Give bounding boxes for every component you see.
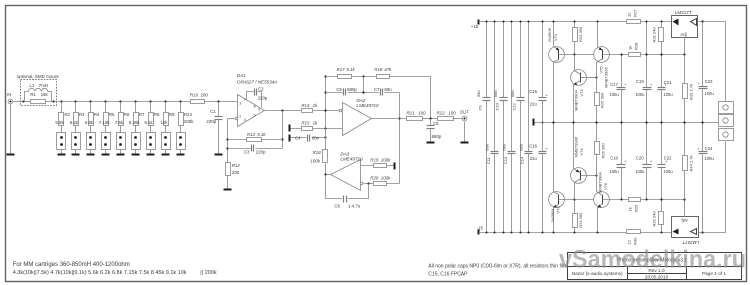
svg-text:100u: 100u — [663, 169, 673, 174]
svg-text:R3: R3 — [79, 112, 85, 117]
resistor R5 7.15k with jumper and ground — [99, 100, 115, 155]
svg-text:7.15k: 7.15k — [99, 120, 111, 125]
svg-text:R16: R16 — [313, 150, 322, 155]
svg-text:C2: C2 — [258, 86, 264, 91]
svg-text:R4: R4 — [94, 112, 100, 117]
svg-text:R32 240: R32 240 — [652, 211, 657, 227]
pin bar C4 input — [289, 135, 291, 142]
node V71 base R23 — [573, 53, 575, 55]
transistor V73 MMBT3904 — [571, 55, 597, 123]
svg-text:R2: R2 — [64, 112, 70, 117]
svg-text:L1: L1 — [30, 83, 35, 88]
svg-text:OUT: OUT — [460, 110, 469, 115]
capacitor C10 68n — [493, 90, 507, 110]
svg-text:C20: C20 — [636, 155, 644, 160]
transistor V74 MMBT3906 — [571, 123, 597, 200]
node R17 R18 — [362, 75, 364, 77]
capacitor C15 22u — [529, 89, 548, 106]
svg-text:12: 12 — [626, 12, 631, 17]
svg-text:100u: 100u — [704, 91, 714, 96]
svg-text:C11: C11 — [486, 156, 491, 164]
wire rail C10 — [503, 21, 505, 234]
capacitor C6 1-4.7u — [334, 196, 361, 209]
svg-text:All non polar caps NP0 (C0G-fi: All non polar caps NP0 (C0G-film or X7R)… — [428, 263, 568, 269]
capacitor C22 100u — [658, 123, 674, 201]
capacitor C16 22u — [529, 144, 548, 161]
resistor R20 100k — [370, 176, 391, 186]
svg-text:C24: C24 — [705, 146, 713, 151]
svg-text:6.8k: 6.8k — [85, 120, 94, 125]
wire base rail to V75 — [575, 54, 594, 56]
voltage regulator LM317T — [672, 10, 698, 38]
capacitor C24 100u — [697, 123, 714, 233]
wire GND mid rail — [535, 122, 719, 124]
connector XS1 pin1 — [719, 102, 734, 114]
wire C3 feedback — [228, 148, 283, 150]
svg-text:C19: C19 — [636, 79, 644, 84]
svg-text:R25 390: R25 390 — [599, 92, 604, 108]
capacitor C1 220p — [206, 102, 222, 154]
resistor R28 1k — [627, 42, 640, 57]
svg-text:5: 5 — [254, 113, 256, 117]
svg-text:R23 390: R23 390 — [578, 26, 583, 42]
ground C1 — [215, 154, 223, 156]
svg-text:100k: 100k — [381, 158, 391, 163]
wire rail C11 — [494, 21, 496, 234]
capacitor C11 68n — [485, 144, 499, 164]
node gnd dots — [552, 121, 685, 123]
svg-text:100: 100 — [448, 111, 456, 116]
svg-text:LM337T: LM337T — [682, 240, 699, 245]
svg-text:7mH: 7mH — [39, 83, 48, 88]
svg-text:-15: -15 — [477, 226, 484, 231]
wire rail C14 — [528, 21, 530, 234]
svg-text:200: 200 — [201, 93, 209, 98]
node C24 bottom — [701, 231, 703, 233]
capacitor C23 100u — [697, 22, 714, 123]
node Adj337 rail — [683, 198, 685, 200]
svg-text:C13: C13 — [503, 156, 508, 164]
svg-text:680p: 680p — [432, 134, 442, 139]
resistor R1 19k — [30, 92, 48, 103]
svg-text:8: 8 — [254, 105, 256, 109]
node C23 top — [701, 20, 703, 22]
wire output line R21 R22 — [423, 118, 438, 120]
svg-text:7.5k: 7.5k — [115, 120, 124, 125]
svg-text:68n: 68n — [502, 144, 507, 151]
wire Adj down — [684, 38, 686, 55]
node DA1 output — [281, 109, 283, 111]
node bus-L1 left — [22, 100, 24, 102]
svg-text:R19: R19 — [370, 158, 379, 163]
wire C5 C7 line — [326, 92, 400, 94]
wire C4 line — [291, 137, 326, 139]
ground C8 — [427, 142, 435, 144]
ground R12 — [224, 189, 232, 191]
svg-text:7: 7 — [244, 98, 246, 102]
svg-text:R6: R6 — [124, 112, 130, 117]
svg-text:R30: R30 — [632, 237, 637, 245]
capacitor C17 100u — [609, 54, 627, 123]
svg-text:R10: R10 — [190, 93, 199, 98]
capacitor C5 680p — [336, 87, 357, 96]
node base rail dots top — [621, 54, 648, 56]
connector XS1 pin2 — [719, 115, 734, 127]
svg-text:vSamodelkina.ru: vSamodelkina.ru — [559, 246, 746, 274]
svg-text:6: 6 — [258, 107, 260, 111]
transistor V71 2N3906 — [547, 21, 574, 123]
capacitor C20 100u — [635, 123, 653, 201]
svg-text:100: 100 — [418, 111, 426, 116]
transistor V75 MMBT3906 — [594, 21, 685, 93]
svg-text:47k: 47k — [384, 67, 392, 72]
op-amp DA2 LME49710 — [339, 98, 379, 136]
svg-text:100k: 100k — [381, 176, 391, 181]
svg-text:C18: C18 — [610, 155, 618, 160]
node col R14 line — [324, 109, 326, 111]
svg-text:1k: 1k — [627, 207, 632, 211]
capacitor C12 68n — [510, 90, 524, 110]
svg-text:C10: C10 — [495, 102, 500, 110]
capacitor C19 100u — [635, 21, 653, 123]
svg-text:LM317T: LM317T — [675, 10, 692, 15]
svg-text:C17: C17 — [610, 82, 618, 87]
svg-text:LME49710: LME49710 — [356, 103, 379, 108]
svg-text:R14: R14 — [301, 103, 310, 108]
node output C8 — [429, 117, 431, 119]
wire R13 feedback — [228, 139, 283, 141]
svg-text:MMBT3906: MMBT3906 — [604, 67, 609, 88]
svg-text:220p: 220p — [206, 119, 216, 124]
wire base rail to V76 — [575, 199, 594, 201]
resistor R32 240 — [652, 200, 664, 234]
svg-text:220p: 220p — [258, 95, 268, 100]
svg-text:1-4.7u: 1-4.7u — [348, 204, 361, 209]
svg-text:LME49710: LME49710 — [340, 156, 363, 161]
svg-text:100u: 100u — [635, 92, 645, 97]
svg-text:R20: R20 — [370, 176, 379, 181]
capacitor C8 680p — [427, 119, 442, 142]
svg-text:200k: 200k — [184, 119, 194, 124]
node riser output — [398, 117, 400, 119]
transistor V76 MMBT3904 — [594, 172, 685, 234]
svg-text:200: 200 — [231, 170, 240, 175]
svg-text:28.05.2010: 28.05.2010 — [645, 274, 669, 279]
svg-text:6.2k: 6.2k — [70, 120, 79, 125]
svg-text:C8: C8 — [433, 121, 439, 126]
wire R20 line — [364, 183, 400, 185]
svg-text:C14: C14 — [520, 156, 525, 164]
title block frame — [568, 253, 743, 280]
svg-text:5.1k: 5.1k — [257, 132, 266, 137]
svg-text:For MM cartriges 360-850mH 400: For MM cartriges 360-850mH 400-1200ohm — [13, 262, 130, 268]
svg-text:5.1k: 5.1k — [346, 67, 355, 72]
op-amp DA3 LME49710 — [331, 151, 364, 190]
node gnd C23C24 — [701, 121, 703, 123]
svg-text:OPA627 / NE5534A: OPA627 / NE5534A — [237, 79, 278, 84]
resistor R17 5.1k — [337, 67, 356, 79]
svg-text:1k: 1k — [313, 103, 318, 108]
svg-text:8.45k: 8.45k — [129, 120, 141, 125]
capacitor C4 68n — [295, 135, 320, 142]
node R20 left — [367, 182, 369, 184]
svg-text:C3: C3 — [244, 149, 250, 154]
svg-text:MMBT3906: MMBT3906 — [573, 136, 578, 157]
resistor R27 12 — [626, 9, 640, 24]
svg-text:C4: C4 — [295, 135, 301, 140]
svg-text:R15: R15 — [301, 121, 310, 126]
connector IN J1 — [7, 92, 13, 104]
svg-text:R18: R18 — [374, 67, 383, 72]
svg-text:R27: R27 — [632, 9, 637, 17]
resistor R24 390 — [573, 200, 583, 234]
svg-text:22u: 22u — [530, 156, 538, 161]
wire mid column — [325, 77, 327, 150]
svg-text:68n: 68n — [312, 135, 320, 140]
pin bar R19 right — [394, 163, 396, 170]
optional SMD box — [17, 74, 60, 105]
svg-text:R8: R8 — [154, 112, 160, 117]
svg-text:R17: R17 — [337, 67, 346, 72]
svg-text:DA1: DA1 — [237, 73, 246, 78]
resistor R22 100 — [437, 111, 457, 121]
resistor R23 200k with jumper and ground — [177, 100, 195, 155]
wire DA1 inverting input — [228, 118, 235, 120]
svg-text:optional, SMD mount: optional, SMD mount — [17, 74, 60, 79]
node fb right — [281, 138, 283, 140]
svg-text:100u: 100u — [635, 169, 645, 174]
svg-text:C16: C16 — [529, 144, 537, 149]
wire R16 to DA3 — [325, 164, 327, 175]
svg-text:220p: 220p — [256, 149, 266, 154]
resistor R30 12 — [626, 230, 640, 246]
wire R17 R18 top line — [326, 76, 431, 78]
capacitor C18 100u — [609, 123, 627, 201]
svg-text:68n: 68n — [493, 90, 498, 97]
svg-text:R22: R22 — [437, 111, 446, 116]
svg-text:C15: C15 — [529, 89, 537, 94]
resistor R14 1k — [301, 103, 318, 113]
node V73 base R25 col — [595, 76, 597, 78]
svg-text:680p: 680p — [347, 87, 357, 92]
wire rail C15 C16 — [542, 21, 544, 234]
wire C6 loop — [326, 175, 369, 199]
ground IN — [7, 154, 15, 156]
svg-text:68n: 68n — [476, 90, 481, 97]
svg-text:V74: V74 — [579, 148, 584, 156]
svg-text:2N3906: 2N3906 — [547, 27, 552, 42]
ground OUT — [461, 142, 469, 144]
svg-text:V73: V73 — [579, 89, 584, 97]
node bus C1 — [217, 100, 219, 102]
wire R18 riser to output — [430, 77, 432, 119]
svg-text:Adj: Adj — [680, 32, 686, 37]
svg-text:4.3k(10k||7.5k) 4.7k(10k||9.1k: 4.3k(10k||7.5k) 4.7k(10k||9.1k) 5.6k 6.2… — [13, 270, 217, 276]
capacitor C13 68n — [502, 144, 516, 164]
wire R15 line — [291, 128, 343, 130]
wire rail C13 — [511, 21, 513, 234]
svg-text:R31 240: R31 240 — [652, 27, 657, 43]
wire Adj 337 up — [684, 200, 686, 217]
wire OUT down — [464, 122, 466, 142]
svg-text:68n: 68n — [510, 90, 515, 97]
resistor R12 200 — [226, 163, 241, 176]
svg-text:1k: 1k — [627, 46, 632, 50]
transistor V72 2N3904 — [549, 123, 575, 234]
svg-text:V76: V76 — [603, 182, 608, 190]
wire R17R18 node down — [363, 77, 365, 93]
svg-text:C6: C6 — [334, 204, 340, 209]
connector XS1 pin3 — [719, 129, 734, 141]
svg-text:68n: 68n — [485, 144, 490, 151]
capacitor C3 220p — [244, 145, 266, 155]
svg-text:R12: R12 — [232, 163, 241, 168]
wire C7 riser to output — [399, 93, 401, 184]
wire rail C12 — [520, 21, 522, 234]
node V74 base R26 col — [595, 174, 597, 176]
resistor R31 240 — [652, 21, 664, 55]
svg-text:2: 2 — [239, 115, 241, 119]
node bus-L1 right — [52, 100, 54, 102]
svg-text:Adj: Adj — [682, 218, 688, 223]
node base rail dots bottom — [621, 199, 648, 201]
svg-text:C5: C5 — [336, 87, 342, 92]
svg-text:12: 12 — [626, 239, 631, 244]
svg-text:C1: C1 — [210, 109, 216, 114]
resistor R8 9.1k with jumper and ground — [144, 100, 160, 155]
resistor R33 2.7k — [683, 55, 694, 123]
wire R12 to ground — [227, 176, 229, 189]
svg-text:R33 2.7k: R33 2.7k — [688, 84, 693, 100]
capacitor C9 68n — [476, 90, 490, 110]
node DA3 out column — [324, 173, 326, 175]
svg-text:1k: 1k — [313, 121, 318, 126]
resistor R16 100k — [310, 150, 327, 164]
svg-text:4: 4 — [244, 118, 246, 122]
svg-text:C15, C16 FPCAP: C15, C16 FPCAP — [428, 272, 468, 278]
svg-text:100u: 100u — [663, 92, 673, 97]
wire R22 to OUT — [453, 118, 463, 120]
svg-text:68n: 68n — [518, 144, 523, 151]
svg-text:3: 3 — [239, 102, 241, 106]
svg-text:R23: R23 — [184, 112, 193, 117]
svg-text:R1: R1 — [30, 92, 36, 97]
resistor R6 7.5k with jumper and ground — [115, 100, 130, 155]
resistor R10 200 — [190, 93, 208, 104]
resistor R18 47k — [374, 67, 392, 79]
svg-text:R5: R5 — [109, 112, 115, 117]
resistor R23 390 — [573, 21, 583, 55]
node fb C3 left — [226, 147, 228, 149]
svg-text:+15: +15 — [471, 24, 479, 29]
wire DA1 feedback column — [227, 119, 229, 163]
svg-text:C12: C12 — [512, 102, 517, 110]
svg-text:R34 2.7k: R34 2.7k — [688, 155, 693, 171]
svg-text:R7: R7 — [139, 112, 145, 117]
wire +15 top rail — [479, 21, 672, 23]
svg-text:22u: 22u — [530, 102, 538, 107]
svg-text:68n: 68n — [384, 87, 392, 92]
svg-text:5.6k: 5.6k — [55, 120, 64, 125]
capacitor C21 100u — [658, 53, 674, 122]
wire DA2 output — [372, 118, 407, 120]
wire fb column right — [282, 111, 284, 149]
resistor R21 100 — [407, 111, 427, 121]
wire LM317 out — [699, 22, 726, 102]
node col C5 line — [324, 91, 326, 93]
resistor R3 6.2k with jumper and ground — [70, 100, 85, 155]
node V72 base R24 — [573, 198, 575, 200]
svg-text:R28: R28 — [633, 42, 638, 50]
resistor R25 390 — [595, 92, 605, 122]
node C5C7 mid — [362, 91, 364, 93]
node col R17 — [324, 75, 326, 77]
resistor R19 100k — [370, 158, 391, 168]
svg-text:R21: R21 — [407, 111, 416, 116]
svg-text:V72: V72 — [555, 206, 560, 214]
wire -15 bottom rail — [479, 232, 672, 234]
svg-text:100k: 100k — [310, 159, 320, 164]
svg-text:10k: 10k — [160, 120, 168, 125]
svg-text:R26 390: R26 390 — [601, 143, 606, 159]
resistor R9 10k with jumper and ground — [160, 100, 175, 155]
wire IN to bus — [14, 101, 24, 103]
op-amp DA1 OPA627/NE5534A — [235, 73, 277, 126]
node fb R13 left — [226, 138, 228, 140]
wire bus R10 to DA1 — [205, 101, 238, 103]
svg-text:R24 390: R24 390 — [578, 212, 583, 228]
node Adj rail — [683, 53, 685, 55]
svg-text:R13: R13 — [247, 132, 256, 137]
resistor R26 390 — [595, 123, 606, 192]
wire rail C9 — [486, 21, 488, 234]
svg-text:R9: R9 — [169, 112, 175, 117]
wire LM337 out — [699, 142, 726, 233]
capacitor C14 68n — [518, 144, 532, 164]
resistor R13 5.1k — [247, 132, 267, 142]
svg-text:C9: C9 — [478, 105, 483, 111]
svg-text:9.1k: 9.1k — [144, 120, 153, 125]
capacitor C7 68n — [374, 87, 392, 96]
svg-text:V75: V75 — [599, 66, 604, 74]
svg-text:IN: IN — [7, 92, 11, 97]
wire DA1 output — [265, 110, 340, 112]
node +15 input — [471, 20, 480, 29]
pin bar R15 input — [289, 125, 291, 132]
voltage regulator LM337T — [672, 217, 700, 245]
connector OUT — [460, 110, 469, 121]
wire R19 line — [361, 165, 394, 167]
inductor L1 — [29, 83, 49, 91]
svg-text:100u: 100u — [704, 156, 714, 161]
resistor R15 1k — [301, 121, 318, 131]
svg-text:19k: 19k — [41, 92, 49, 97]
resistor R2 5.6k with jumper and ground — [55, 100, 70, 155]
wire main bus — [24, 101, 191, 103]
node C4 column — [324, 136, 326, 138]
pin bar GND rail — [533, 119, 535, 126]
resistor R29 1k — [627, 198, 640, 213]
svg-text:100u: 100u — [609, 169, 619, 174]
svg-text:C23: C23 — [705, 79, 713, 84]
wire IN down — [10, 104, 12, 154]
resistor R34 2.7k — [683, 123, 694, 200]
svg-text:100u: 100u — [609, 92, 619, 97]
wire DA3 out to column — [326, 174, 331, 176]
svg-text:C7: C7 — [374, 87, 380, 92]
svg-text:R29: R29 — [633, 204, 638, 212]
resistor R4 6.8k with jumper and ground — [85, 100, 100, 155]
